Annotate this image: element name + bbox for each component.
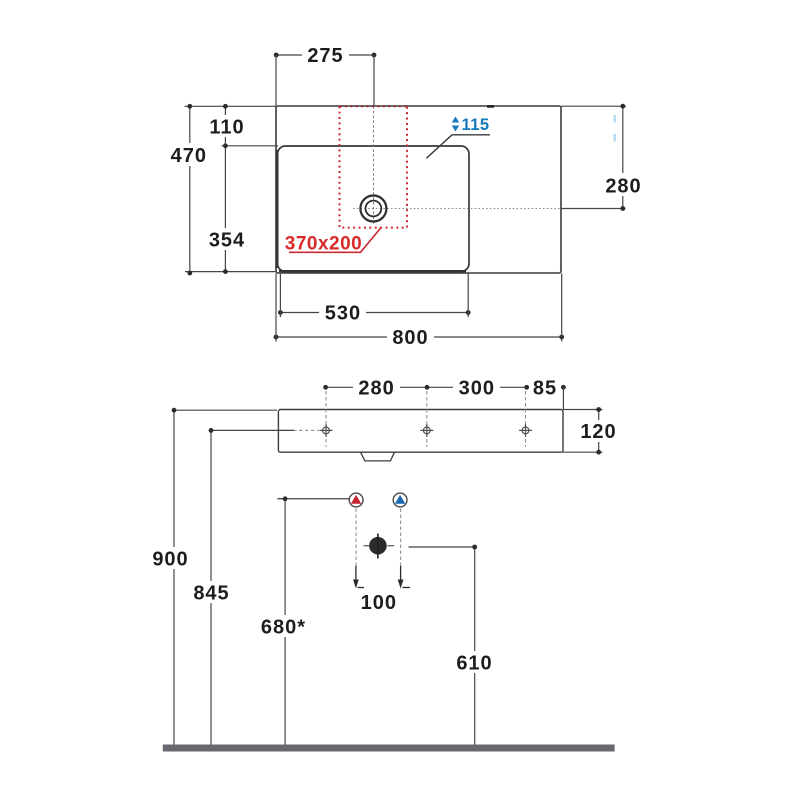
dim 845 vertical: [210, 430, 212, 744]
red dotted top edge overlay: [340, 105, 408, 107]
mounting hole 3: [519, 424, 532, 437]
svg-text:115: 115: [461, 116, 489, 134]
top edge extension to left: [185, 105, 277, 107]
svg-text:370x200: 370x200: [285, 234, 362, 255]
dim 530 line: [280, 312, 468, 314]
dim 610 vertical: [474, 547, 476, 745]
dim 680 horizontal: [285, 498, 349, 500]
svg-text:120: 120: [580, 421, 616, 443]
svg-text:85: 85: [533, 377, 557, 399]
svg-text:354: 354: [209, 230, 245, 252]
dim 100 ticks: [358, 587, 365, 589]
floor bar: [163, 745, 615, 752]
horizontal centerline dotted: [353, 208, 561, 210]
dim 280/300/85 line: [326, 386, 564, 388]
115 up-down arrow: [452, 117, 459, 132]
svg-text:845: 845: [193, 583, 229, 605]
svg-text:530: 530: [325, 303, 361, 325]
front view rect: [278, 410, 563, 453]
hot water symbol: [349, 493, 363, 507]
dim 800 line: [276, 336, 562, 338]
dim 275 extension left: [275, 55, 277, 106]
svg-text:275: 275: [307, 45, 343, 67]
dim 110/354 vertical line: [224, 106, 226, 271]
dim 680 vertical: [284, 499, 286, 745]
hole1 dashed horizontal: [281, 429, 319, 431]
drain black dot: [369, 537, 387, 555]
dim 120 extensions: [563, 409, 603, 411]
cold water symbol: [393, 493, 407, 507]
svg-text:100: 100: [361, 592, 397, 614]
faucet hole outer circle: [360, 196, 386, 222]
basin bottom shadow edge: [279, 270, 466, 272]
red leader line: [289, 228, 381, 253]
svg-text:300: 300: [459, 377, 495, 399]
dim 610 horizontal: [409, 546, 475, 548]
dim 275 extension right: [373, 55, 375, 106]
dim 100 down arrows: [353, 580, 359, 589]
top view outer countertop: [276, 106, 561, 273]
dim right stub: [562, 387, 564, 409]
115 leader line: [426, 135, 490, 159]
dim 900 vertical: [173, 410, 175, 744]
svg-text:280: 280: [605, 176, 641, 198]
faucet vertical centerline: [373, 106, 375, 224]
dim 470 vertical line: [189, 106, 191, 273]
dim 845 horizontal: [211, 429, 294, 431]
dim 100 solid stubs: [355, 566, 357, 584]
basin bottom extension to left: [185, 271, 277, 273]
svg-text:800: 800: [392, 327, 428, 349]
mounting hole 2: [420, 424, 433, 437]
dim 280 vertical line: [622, 106, 624, 208]
faucet hole inner circle: [366, 201, 382, 217]
top right extension: [561, 105, 626, 107]
dim 275 end dots: [274, 53, 279, 58]
basin left shadow edge: [276, 150, 278, 268]
basin top extension to left: [222, 145, 279, 147]
drain dot crosshair: [377, 534, 379, 559]
hole dashed verticals: [325, 391, 327, 447]
svg-text:610: 610: [456, 653, 492, 675]
svg-text:680*: 680*: [261, 617, 306, 639]
dim 120 vertical line: [598, 410, 600, 453]
basin rounded rect: [278, 146, 470, 272]
svg-text:470: 470: [171, 145, 207, 167]
svg-text:900: 900: [152, 549, 188, 571]
light blue dashed line: [614, 115, 616, 144]
mounting hole 1: [320, 424, 333, 437]
svg-text:110: 110: [209, 117, 244, 139]
dim 530 extensions: [279, 274, 281, 317]
svg-text:280: 280: [358, 377, 394, 399]
drain notch trapezoid: [361, 452, 395, 461]
dashed stubs below symbols: [355, 509, 357, 567]
dim 800 extensions: [275, 274, 277, 342]
tick on top edge: [487, 105, 494, 108]
dim 900 horizontal: [174, 409, 277, 411]
red dotted rectangle 370x200: [340, 106, 408, 227]
centerline right extension: [561, 208, 626, 210]
dim 275 line: [276, 54, 374, 56]
